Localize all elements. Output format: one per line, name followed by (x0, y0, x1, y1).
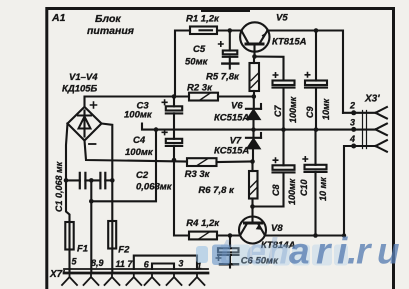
svg-text:C1 0,068 мк: C1 0,068 мк (54, 161, 64, 212)
wire plus rail from bridge top to R2 (85, 97, 190, 107)
junction chassis link / pins 8,9 wire (89, 199, 94, 204)
wire minus rail from bridge bottom to R3 (85, 141, 188, 162)
wire V8 emitter to X3' pin 4 (265, 146, 376, 236)
svg-text:X3': X3' (364, 94, 380, 105)
wire AC left from bridge to fuse F1 (66, 124, 70, 273)
svg-text:F1: F1 (77, 244, 88, 255)
fuse F2 (108, 221, 116, 249)
svg-text:100мк: 100мк (124, 110, 153, 121)
capacitor C3 (173, 97, 175, 107)
capacitor C1 (66, 179, 100, 181)
fuse F1 (65, 222, 73, 250)
junction minus output rail corner (342, 233, 346, 237)
junction V7 / R3 / R6 (250, 159, 255, 164)
svg-text:10 мк: 10 мк (318, 177, 328, 201)
svg-text:0,068мк: 0,068мк (136, 182, 173, 193)
svg-text:C8: C8 (271, 184, 281, 196)
svg-text:питания: питания (87, 25, 134, 37)
capacitor C4 (173, 130, 175, 139)
svg-text:R1 1,2к: R1 1,2к (186, 14, 220, 25)
svg-text:КС515А: КС515А (214, 146, 249, 157)
bridge plus sign (91, 102, 97, 108)
wire V8 base to C8 (253, 173, 284, 207)
junction C9 / C10 / 0V rail (314, 127, 319, 132)
wire R1 left branch (175, 31, 190, 97)
watermark overlay (196, 231, 400, 272)
junction R1 / C5 / V5 collector (228, 28, 233, 33)
wire R3 to zener V7 (217, 160, 253, 163)
capacitor C8 (282, 130, 284, 166)
transistor V5 (240, 22, 269, 51)
svg-text:V6: V6 (231, 101, 243, 112)
wire V5 emitter to X3' pin 2 (267, 31, 343, 113)
svg-text:C2: C2 (136, 170, 149, 181)
connector X7' pin 11 contact (105, 273, 120, 285)
connector X3' pin 3 contact (354, 124, 387, 136)
polarity plus of C8 (273, 157, 279, 163)
zener diode V7 (252, 130, 254, 138)
bridge minus sign (89, 143, 96, 145)
junction C7 / C8 / 0V rail (281, 127, 286, 132)
svg-text:R4 1,2к: R4 1,2к (186, 218, 220, 229)
resistor R1 (190, 27, 217, 35)
wire jumper X7' pins 6 to 3 (152, 264, 174, 270)
svg-text:Блок: Блок (95, 13, 121, 25)
svg-text:11 7: 11 7 (116, 259, 134, 269)
svg-text:10мк: 10мк (321, 98, 331, 120)
wire V5 base to C7 (255, 57, 284, 81)
svg-text:3: 3 (350, 117, 355, 127)
svg-text:F2: F2 (118, 245, 130, 256)
svg-text:X7': X7' (49, 269, 65, 280)
svg-text:2: 2 (349, 101, 355, 111)
resistor R3 (187, 158, 217, 166)
wire minus rail branch down to R4 (174, 160, 189, 236)
capacitor C2 (105, 179, 112, 181)
svg-text:КД105Б: КД105Б (62, 84, 98, 95)
connector X7' pins 8,9 contact (84, 273, 99, 285)
svg-text:R2 3к: R2 3к (187, 83, 213, 94)
svg-text:100мк: 100мк (287, 178, 297, 205)
junction X3' pin 3 (351, 127, 356, 132)
bridge rectifier V1-V4 (68, 107, 102, 141)
svg-text:C7: C7 (273, 105, 283, 117)
capacitor C10 (314, 130, 316, 165)
svg-text:C10: C10 (299, 179, 309, 196)
svg-text:V1–V4: V1–V4 (69, 72, 98, 83)
polarity plus of C7 (273, 72, 279, 78)
svg-text:КС515А: КС515А (214, 113, 249, 124)
svg-text:A1: A1 (51, 12, 66, 24)
capacitor C5 (229, 31, 231, 51)
svg-text:КТ815А: КТ815А (272, 37, 307, 48)
svg-text:R3 3к: R3 3к (185, 169, 211, 180)
polarity plus of C3 (162, 99, 168, 105)
junction plus rail / R1 / C3 / R2 (172, 94, 177, 99)
junction AC right / C2 (110, 178, 115, 183)
resistor R6 (251, 161, 253, 171)
resistor R4 (189, 232, 217, 240)
svg-text:V5: V5 (276, 13, 288, 24)
junction C9 / plus output rail (314, 28, 319, 33)
svg-text:R6 7,8 к: R6 7,8 к (198, 185, 235, 196)
svg-text:C4: C4 (133, 135, 146, 146)
svg-text:C9: C9 (305, 106, 315, 118)
wire AC right from bridge to fuse F2 (102, 124, 113, 273)
capacitor C9 (315, 31, 317, 81)
junction minus rail / C4 / R3 / R4 (172, 158, 177, 163)
svg-text:ari.ru: ari.ru (289, 231, 400, 272)
polarity plus of C5 (218, 41, 224, 47)
junction R5 / R2 / V6 (252, 94, 257, 99)
capacitor C7 (273, 81, 295, 86)
polarity plus of C6 (216, 255, 222, 261)
wire chassis node to X7' pins 8,9 (90, 180, 92, 272)
wire 0V common rail to X3' pin 3 (142, 124, 354, 130)
resistor R5 (253, 57, 255, 64)
connector X7' body lines (64, 268, 208, 270)
polarity plus of C4 (162, 129, 168, 135)
transistor V8 (239, 217, 266, 244)
connector X3' pin 2 contact (343, 107, 387, 119)
wire R2 to zener V6 (218, 95, 254, 97)
connector X3' body lines (363, 111, 367, 149)
connector X7' pin 6 contact (145, 273, 160, 285)
svg-text:8,9: 8,9 (91, 258, 104, 268)
wire R1 to V5 collector (217, 29, 242, 31)
svg-text:4: 4 (349, 134, 355, 144)
junction X3' pin 4 (351, 144, 356, 149)
junction V6 / V7 / 0V rail (251, 127, 256, 132)
polarity plus of C9 (305, 72, 311, 78)
svg-text:C5: C5 (193, 44, 206, 55)
wire 0V link to chassis node (91, 130, 156, 202)
junction R6 / V8 base / C8 (250, 204, 255, 209)
svg-text:50мк: 50мк (185, 57, 209, 68)
wire jumper X7' pins 7 to 1 (134, 256, 197, 269)
junction 0V rail / chassis link (154, 127, 159, 132)
polarity plus of C10 (302, 156, 308, 162)
resistor R2 (189, 93, 218, 101)
connector X3' pin 4 contact (376, 140, 387, 152)
junction C1 / C2 midpoint (89, 178, 94, 183)
connector X7' pin 3 contact (167, 273, 182, 285)
junction X3' pin 2 (351, 110, 356, 115)
connector X7' pin 7 contact (126, 273, 141, 285)
junction AC left / C1 (64, 178, 69, 183)
svg-text:R5 7,8к: R5 7,8к (206, 72, 240, 83)
wire R4 to V8 collector (217, 234, 240, 236)
svg-text:100мк: 100мк (125, 147, 154, 158)
zener diode V6 (253, 97, 255, 109)
connector X7' pin 1 contact (190, 273, 205, 285)
junction R4 / C6 / V8 collector (228, 233, 233, 238)
junction C10 / minus output rail (313, 233, 318, 238)
svg-text:100мк: 100мк (288, 96, 298, 123)
capacitor C6 (229, 236, 231, 249)
svg-text:teh: teh (219, 231, 289, 272)
junction V5 base / R5 / C7 (252, 54, 257, 59)
svg-text:3: 3 (178, 259, 183, 269)
connector X7' pin 5 contact (62, 273, 77, 285)
